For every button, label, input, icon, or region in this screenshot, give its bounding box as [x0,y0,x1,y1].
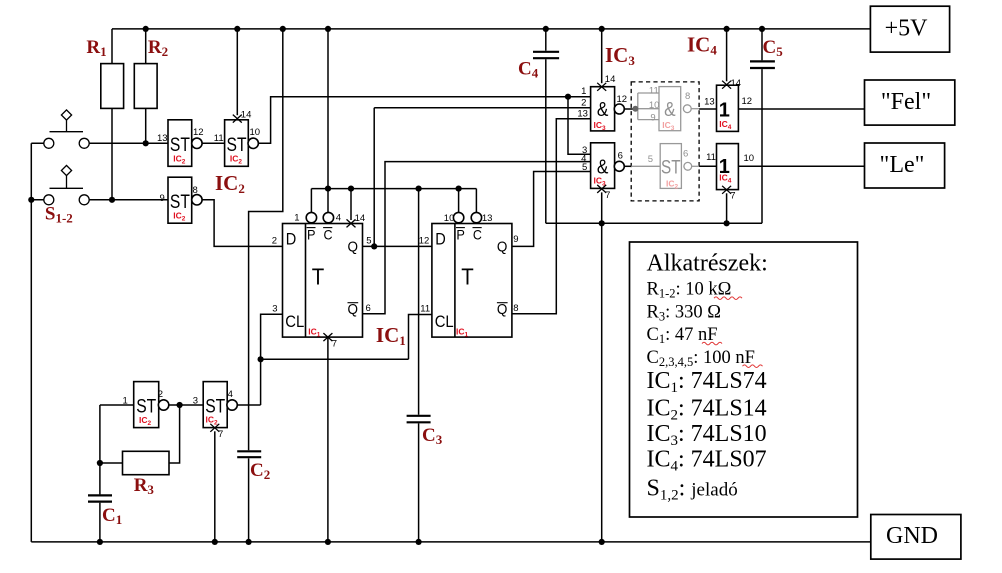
wire gray ST out to IC4 in11 [699,165,716,167]
svg-text:Q: Q [497,301,508,318]
svg-text:2: 2 [581,97,586,108]
wire +5V top rail [112,28,870,30]
capacitor C1 [88,495,112,501]
svg-text:9: 9 [513,234,518,245]
svg-text:Q: Q [348,301,359,318]
wire C4 top [545,29,547,51]
schmitt inverter ST3 (IC2 9-8) [168,177,192,223]
pin7 X mark IC3 [597,185,606,193]
wire ST4 input [100,404,134,406]
terminal box Fel [865,80,955,125]
junction dot clock bus [258,356,264,362]
svg-text:1: 1 [581,86,586,97]
pin14 X mark FF1 [347,219,356,227]
pin14 X mark IC3 [597,83,606,91]
svg-text:IC3: 74LS10: IC3: 74LS10 [647,421,767,449]
junction dot IC3 pin1/pin3 [565,94,571,100]
svg-text:CL: CL [285,312,304,331]
junction dot R1/row2 [109,197,115,203]
capacitor C3 [407,416,431,423]
svg-text:P: P [456,226,465,242]
svg-text:Alkatrészek:: Alkatrészek: [647,251,768,277]
svg-text:13: 13 [577,108,588,119]
svg-text:6: 6 [618,150,623,161]
svg-text:7: 7 [332,339,337,350]
svg-text:IC4: 74LS07: IC4: 74LS07 [647,447,767,475]
flip-flop FF2 (IC1) [432,224,512,338]
wire ST3 out down to FF1 D pin2 [202,200,283,247]
switch S1 actuator [50,120,84,132]
junction dot C1/R3 node [97,460,103,466]
wire FF2 Q to IC3 pin5 [512,172,591,247]
terminal box +5V [870,6,949,52]
wire preset/clear line [311,188,476,190]
svg-text:10: 10 [250,127,261,138]
svg-text:2: 2 [272,236,277,247]
wire ST1 out to ST2 in [202,142,225,144]
junction dot left vertical/row2 [28,197,34,203]
svg-text:12: 12 [617,94,628,105]
wire IC ground line [546,222,762,224]
wire switch row 2 [31,199,168,201]
wire ST5 out to clock bus [260,359,262,405]
wire unused gate to IC4 in13 [699,108,716,110]
wire IC4 pin7 to ground line [726,193,728,223]
svg-text:GND: GND [886,523,938,549]
svg-text:P: P [307,226,316,242]
wire R3 right up to ST4 out [169,405,180,463]
svg-text:3: 3 [193,395,198,406]
svg-text:6: 6 [366,303,371,314]
svg-text:4: 4 [336,213,341,224]
svg-text:R3: 330 Ω: R3: 330 Ω [647,302,721,323]
wire C1 bottom to GND [99,503,101,542]
terminal box GND [871,515,961,560]
spellcheck squiggle under nF line C1 [702,342,722,345]
svg-text:D: D [435,229,446,248]
wire ST4 out to ST5 in [169,404,204,406]
junction dot FF1 Q [371,243,377,249]
wire left vertical (switch common to GND) [30,143,32,542]
wire +5V to preset line [327,29,329,189]
wire FF1 pin7 to GND [327,337,329,542]
buffer IC4a (13-12) [717,85,739,131]
PARTS_END [136,135,681,418]
svg-text:14: 14 [731,78,742,89]
schmitt inverter ST1 (IC2 13-12) [168,120,192,167]
wire FF1 pin1 stub [310,189,312,213]
svg-text:10: 10 [649,100,660,111]
wire IC4 out12 to Fel [738,108,864,110]
svg-text:C: C [473,226,482,242]
wire clock bus [261,358,409,360]
svg-text:11: 11 [214,133,224,144]
wire R2 top [145,29,147,64]
svg-text:7: 7 [218,429,223,440]
wire C3 top [418,189,420,415]
wire switch row 1 [31,142,168,144]
unused schmitt inverter IC2 (5-6) [631,165,660,167]
junction dots top rail [143,26,149,32]
junction dot R2/row1 [143,140,149,146]
nand gate IC3a (1,2,13-12) [591,87,615,131]
svg-text:9: 9 [650,112,655,123]
wire C1 node vertical [99,405,101,494]
wire IC4 out10 to Le [738,165,864,167]
wire FF1 CL to clock bus [261,314,283,359]
svg-text:14: 14 [241,110,252,121]
switch S1 contact circles [44,138,54,148]
wire IC3 out1 to unused gate [624,108,635,110]
wire FF2 pin13 stub [475,189,477,213]
wire IC4 pin14 to +5V [726,29,728,81]
svg-text:11: 11 [420,303,430,314]
wire FF2 Qbar to IC3 pin13 [512,119,591,314]
wire FF1 pin14 stub [350,189,352,220]
svg-text:6: 6 [683,149,688,160]
wire C4 bottom to ground line [545,59,547,223]
svg-text:1: 1 [123,395,128,406]
pin7 X mark ST5 [210,424,219,432]
pin numbers unused gates gray [648,86,690,165]
wire IC3 pin7 to GND [601,192,603,542]
svg-text:5: 5 [648,154,653,165]
wire ST5 out [237,404,261,406]
schmitt inverter ST5 (IC2 3-4) [203,382,227,428]
wire IC3 pin1 to pin3 tie [568,97,591,155]
wire ST2 pin14 to +5V [236,29,238,115]
dashed box around unused gates [631,82,699,201]
component list box [630,242,858,517]
nand gate IC3b (3,4,5-6) [591,143,615,189]
wire R1 bottom [111,108,113,199]
svg-text:8: 8 [685,91,690,102]
spellcheck squiggle under nF line C2345 [743,365,763,368]
svg-text:3: 3 [272,303,277,314]
wire ST5 pin7 to GND [214,431,216,542]
svg-text:+5V: +5V [885,16,929,42]
svg-text:13: 13 [157,133,168,144]
svg-text:12: 12 [193,127,204,138]
resistor R3 [123,451,170,474]
wire clock bus to FF2 CL [409,315,432,360]
svg-text:12: 12 [742,96,753,107]
wire +5V jog down to C2 [249,29,283,450]
resistor R1 [101,64,124,109]
svg-text:ST: ST [661,158,681,179]
svg-text:Q: Q [348,238,359,255]
switch S2 actuator [50,176,84,189]
svg-text:5: 5 [582,162,587,173]
buffer IC4b (11-10) [717,144,739,190]
svg-text:12: 12 [419,236,430,247]
svg-text:11: 11 [649,86,659,97]
switch S2 contact circles [44,195,54,205]
svg-text:IC2: 74LS14: IC2: 74LS14 [647,395,767,423]
svg-text:14: 14 [605,74,616,85]
wire FF1 Q to FF2 D [363,245,432,247]
svg-text:CL: CL [435,312,454,331]
unused nand gate IC3c body [659,87,681,131]
wire C5 top [761,29,763,60]
svg-text:13: 13 [704,97,715,108]
svg-text:11: 11 [706,152,716,163]
capacitor C2 [237,451,261,457]
wire R3 left [100,462,123,464]
wire FF1 pin4 stub [327,189,329,213]
svg-text:2: 2 [158,389,163,400]
terminal box Le [865,143,945,188]
svg-text:IC1: 74LS74: IC1: 74LS74 [647,368,767,396]
svg-text:D: D [286,229,297,248]
junction dot unused gate input [632,106,638,112]
svg-text:C1: 47 nF: C1: 47 nF [647,325,718,346]
wire FF2 pin10 stub [458,189,460,213]
svg-text:"Fel": "Fel" [881,89,931,115]
svg-text:Q: Q [497,238,508,255]
wire C2 bottom to GND [248,458,250,542]
svg-text:C: C [324,226,333,242]
svg-text:T: T [312,264,325,290]
svg-text:&: & [597,99,609,121]
svg-text:"Le": "Le" [880,152,925,178]
svg-text:7: 7 [605,190,610,201]
wire ST2 out up to IC3 pin1 [258,97,590,144]
spellcheck squiggle under kOhm [714,297,742,300]
svg-text:7: 7 [730,190,735,201]
capacitor C5 [750,61,775,68]
junction dots preset line [325,186,331,192]
WIRES_END [101,64,169,475]
svg-text:8: 8 [193,185,198,196]
flip-flop FF1 (IC1) [283,224,363,338]
unused nand gate IC3c input bracket [635,93,659,120]
pin7 X mark IC4 [722,186,731,194]
svg-text:10: 10 [744,153,755,164]
svg-text:1: 1 [294,213,299,224]
svg-text:4: 4 [228,389,233,400]
wire IC3 out2 stub [624,165,631,167]
schmitt inverter ST2 (IC2 11-10) [225,120,249,167]
pin14 X mark IC4 [722,81,731,89]
svg-text:14: 14 [355,213,366,224]
junction dot ST4 out/R3 [177,402,183,408]
wire R1 top [111,29,113,64]
resistor R2 [134,64,157,109]
wire FF1 Q up to IC3 pin2 [374,108,590,247]
wire IC3 pin14 to +5V [601,29,603,83]
svg-text:&: & [664,99,676,121]
svg-text:9: 9 [160,193,165,204]
pin14 X mark ST2 [233,115,242,123]
wire GND bottom rail [31,541,871,543]
junction dots IC ground line [599,220,605,226]
capacitor C4 [533,52,559,58]
svg-text:8: 8 [513,303,518,314]
svg-text:5: 5 [366,236,371,247]
junction dots GND rail [97,539,103,545]
wire FF1 Qbar to IC3 pin4 [363,162,591,314]
schmitt inverter ST4 (IC2 1-2) [134,382,159,428]
svg-text:13: 13 [482,213,493,224]
wire C5 bottom to ground line [761,69,763,223]
svg-text:10: 10 [444,213,455,224]
pin7 X mark FF1 [323,333,332,341]
svg-text:T: T [461,264,474,290]
wire R2 bottom [145,108,147,143]
wire C3 bottom to GND [418,423,420,542]
